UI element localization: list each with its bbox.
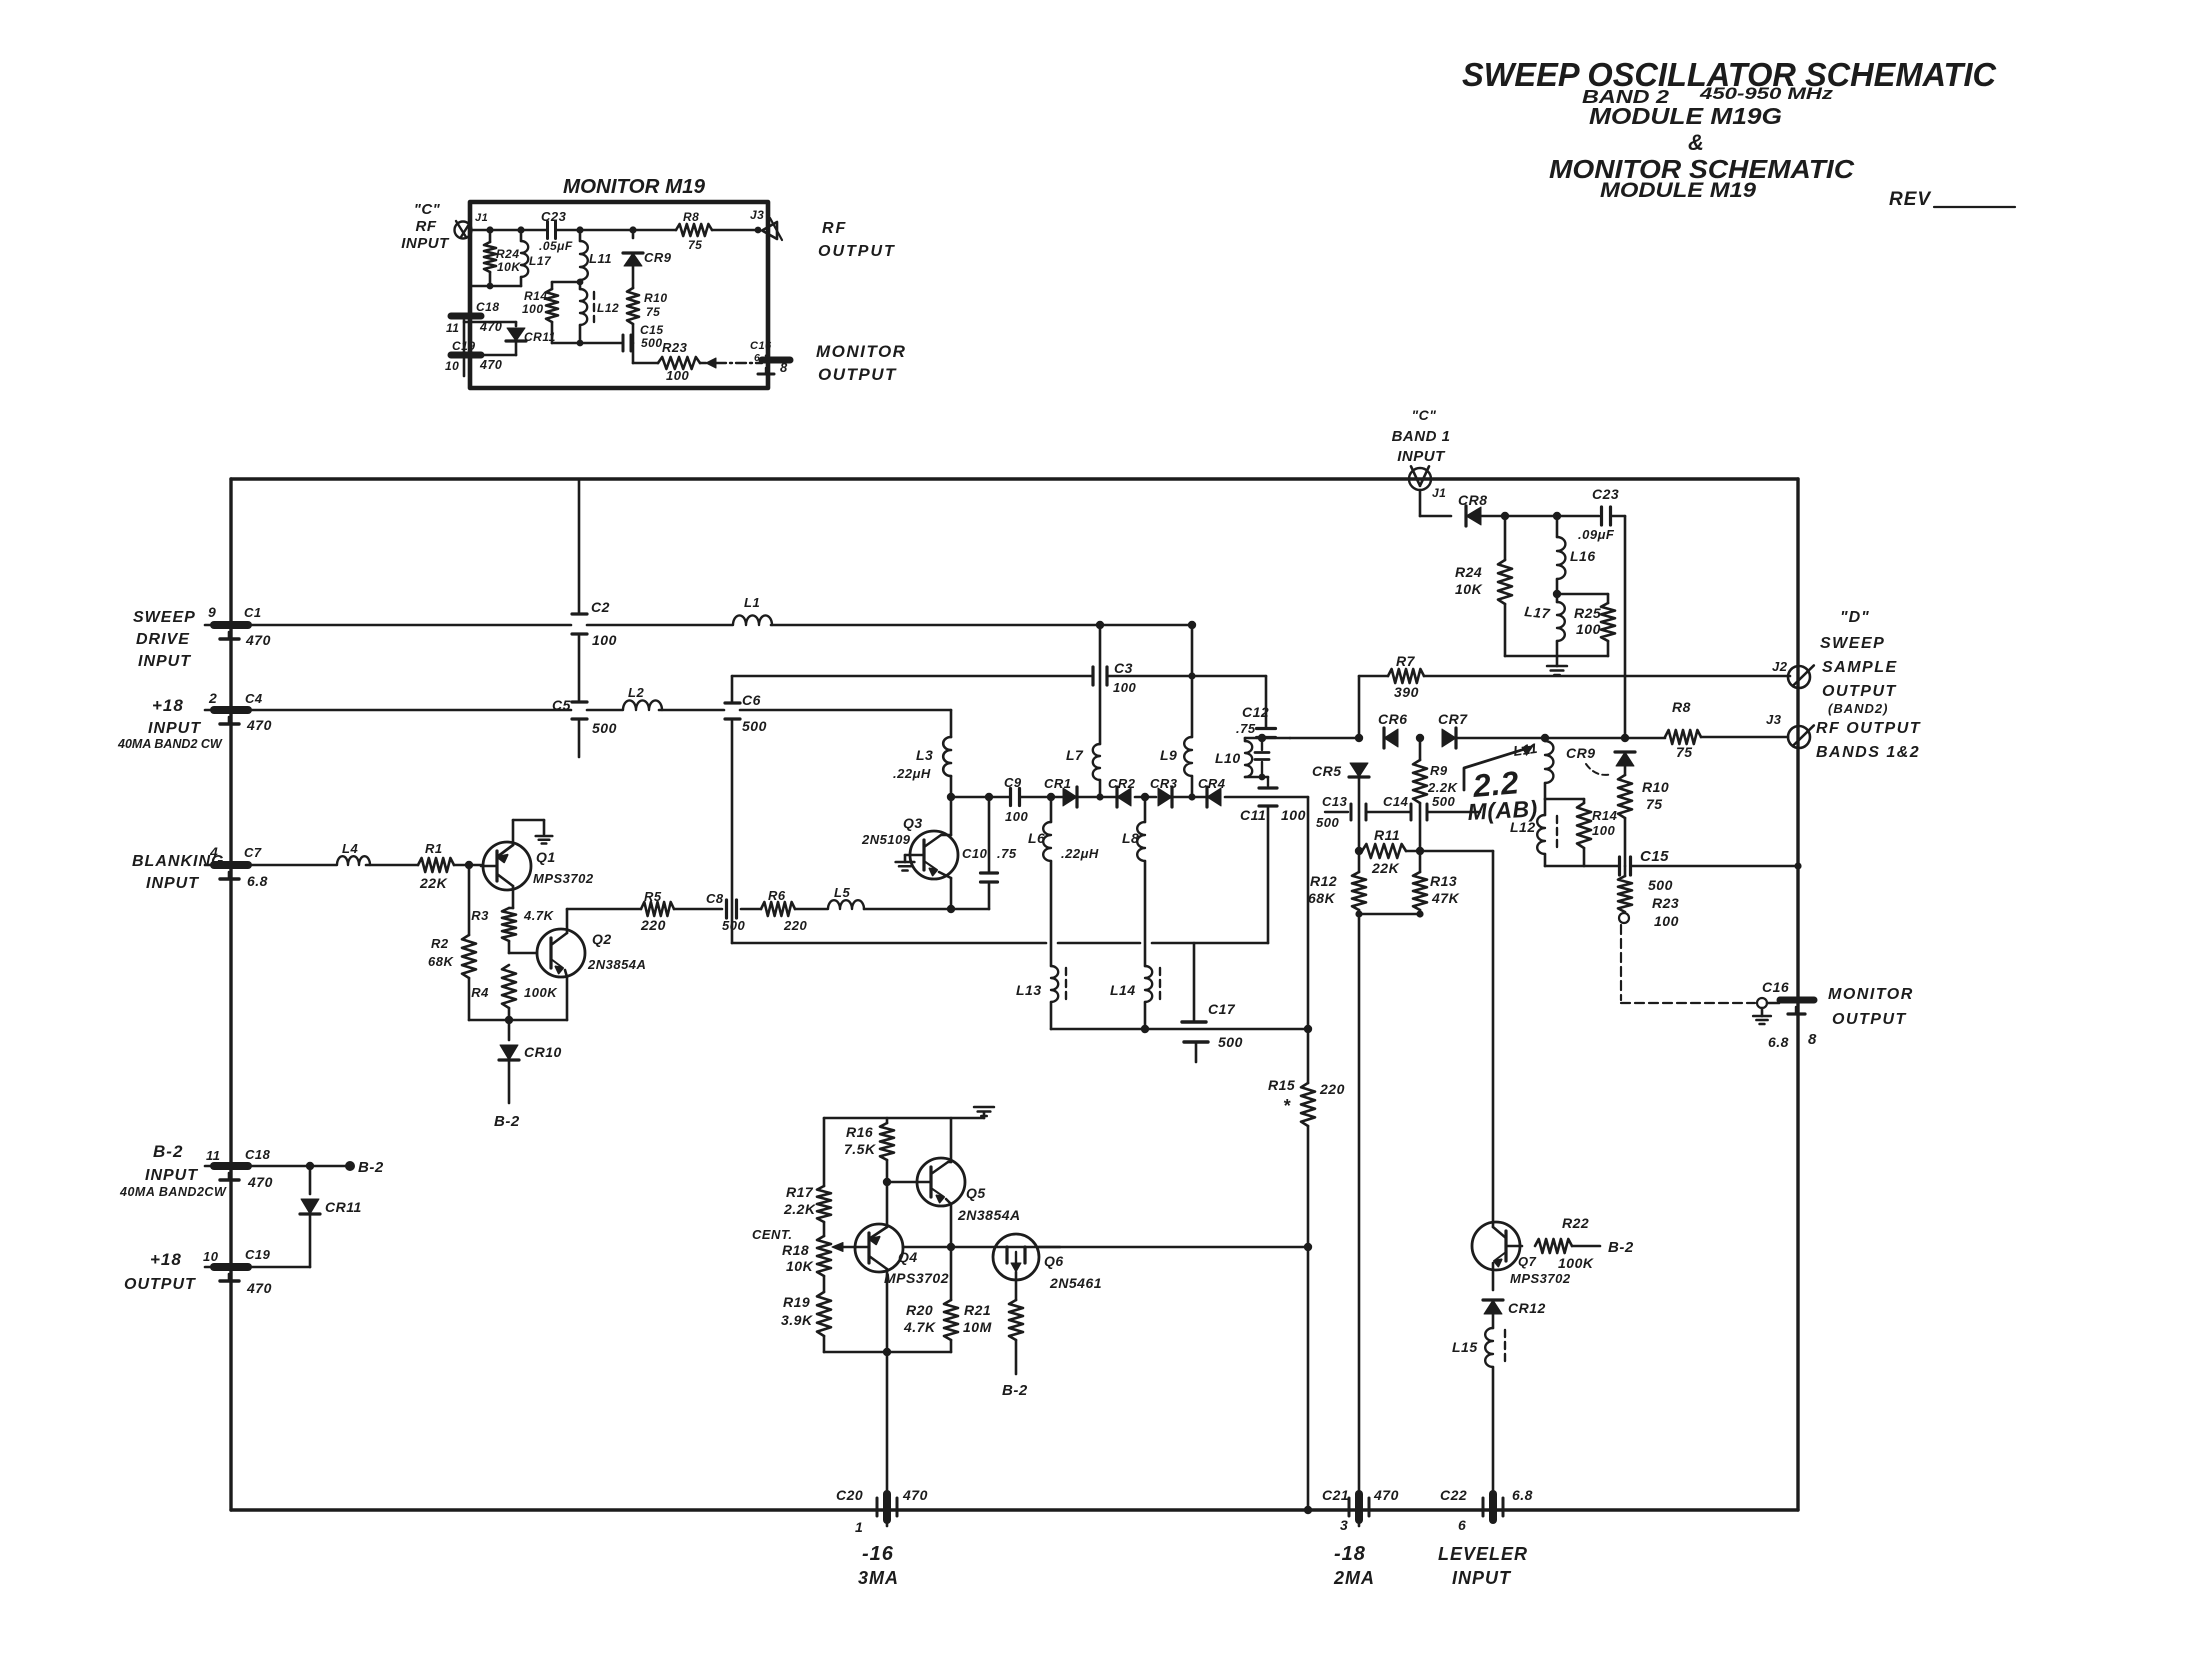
resistor R11 [1359,844,1420,858]
wire top rail Q4 block [824,1117,984,1120]
resistor R19 [817,1292,831,1352]
label R24 10K (monitor) [496,247,521,274]
svg-text:2.2K: 2.2K [783,1201,816,1217]
svg-text:R16: R16 [846,1124,873,1140]
junction dot R11 right [1416,847,1424,855]
resistor R24 (monitor) [484,230,496,286]
label pin 10 [203,1249,219,1264]
label L17 main [1524,603,1552,622]
wire -18 column [1358,914,1361,1526]
inductor L12 main [1537,799,1545,866]
svg-text:J3: J3 [1766,712,1782,727]
junction dot L10 C12 node [1258,734,1266,742]
label C BAND1 INPUT [1392,407,1451,465]
svg-text:C15: C15 [640,323,664,337]
wire 737 bracket top [1245,737,1290,740]
svg-text:R5: R5 [644,889,662,904]
wire blanking line [248,864,481,867]
junction dot R11 left [1355,847,1363,855]
svg-text:8: 8 [780,360,788,375]
junction dot L12 bottom (monitor) [577,340,584,347]
svg-text:INPUT: INPUT [1397,448,1446,465]
label 470 (C20) [902,1487,928,1503]
svg-text:C9: C9 [1004,775,1022,790]
label 2N3854A (Q5) [957,1207,1021,1223]
svg-text:100K: 100K [1558,1255,1594,1271]
label R14 100 main [1592,808,1618,838]
label 500 (C15 main) [1648,877,1673,893]
svg-text:RF OUTPUT: RF OUTPUT [1816,720,1921,737]
resistor R8 (monitor) [676,224,712,236]
svg-text:L17: L17 [1524,603,1552,622]
wire CR7 to CR9 junction [1456,737,1625,740]
svg-text:R11: R11 [1374,827,1400,843]
resistor R4 [502,965,516,1020]
resistor R14 (monitor) [546,282,558,343]
svg-text:-16: -16 [862,1543,894,1565]
svg-text:L12: L12 [597,301,619,315]
junction dot CR5 top [1355,734,1363,742]
inductor L17 main [1557,594,1565,656]
label 100K (R4) [524,985,558,1000]
svg-text:R7: R7 [1396,653,1416,669]
svg-text:OUTPUT: OUTPUT [1822,683,1897,700]
capacitor C13 [1325,804,1351,820]
capacitor L10 shunt cap [1255,738,1269,777]
svg-text:R17: R17 [786,1184,814,1200]
label R14 100 (monitor) [522,289,548,316]
label R23 100 main [1652,895,1679,929]
capacitor C3 plates [1093,667,1107,685]
svg-text:C18: C18 [476,300,500,314]
main box right border [1796,479,1799,1510]
svg-text:R15: R15 [1268,1077,1295,1093]
label 6.8 (C22) [1512,1487,1533,1503]
svg-text:2N5461: 2N5461 [1049,1275,1102,1291]
wire 943 ground line [732,942,1268,945]
junction dot L6 top [1047,793,1055,801]
resistor R2 [462,865,476,1020]
svg-text:6.8: 6.8 [247,873,268,889]
svg-text:220: 220 [783,918,807,933]
svg-text:100: 100 [592,632,617,648]
inductor L6 [1043,797,1051,966]
svg-text:470: 470 [246,717,272,733]
wire CR11 to C19 (monitor) [464,354,516,357]
resistor R22 [1535,1239,1600,1253]
label CR11 main [325,1199,362,1215]
svg-text:7.5K: 7.5K [844,1141,876,1157]
svg-text:J2: J2 [1772,659,1788,674]
label 500 (C13) [1316,815,1339,830]
label C21 [1322,1487,1349,1503]
svg-text:L8: L8 [1122,830,1139,846]
label BLANKING INPUT [132,853,224,892]
resistor R14 main [1577,799,1591,866]
label Q2 [592,931,612,947]
wire L3 corner [950,710,953,737]
label R20 4.7K [903,1302,936,1335]
label Q1 [536,849,556,865]
svg-text:LEVELER: LEVELER [1438,1544,1528,1564]
svg-text:10K: 10K [786,1258,814,1274]
junction dot L16 top [1553,512,1561,520]
diode CR4 [1207,787,1221,807]
label C14 [1383,794,1409,809]
connector J1 main [1409,466,1431,490]
label L2 [628,685,644,700]
diode CR9 (monitor) [623,230,643,288]
label D SWEEP SAMPLE OUTPUT BAND2 [1820,609,1898,716]
capacitor C8 [727,900,737,918]
wire C6 column down to 943 line [731,721,734,943]
wire C12 feed corner [1265,676,1268,727]
junction dot CR9 top (monitor) [629,226,636,233]
junction dot 1029 right [1304,1025,1312,1033]
wire Q5 emitter to Q6 line [903,1246,1060,1249]
junction dot L11 top [1541,734,1549,742]
wire monitor mid bottom line [552,342,622,345]
label R25 100 [1574,605,1601,637]
wire CR9 column to R23 (monitor) [632,343,635,363]
junction dot R9 top [1416,734,1424,742]
capacitor C6 feedthrough plates [725,676,740,719]
label -16 3MA [858,1543,899,1588]
resistor R3 [502,908,516,941]
label asterisk (R15) [1283,1096,1291,1116]
label CR6 [1378,711,1408,727]
main box top border [231,477,1798,480]
label 4.7K (R3) [523,908,555,923]
label C10 [962,846,988,861]
label R3 [471,908,489,923]
label C11 [1240,807,1266,823]
junction dot L14 bottom [1141,1025,1149,1033]
label R9 [1430,763,1448,778]
label 470 (C4) [246,717,272,733]
svg-text:CR8: CR8 [1458,492,1488,508]
resistor R17 [817,1118,831,1222]
label R10 75 (monitor) [644,291,668,319]
label J3 main [1766,712,1782,727]
label R16 7.5K [844,1124,876,1157]
svg-text:R4: R4 [471,985,489,1000]
svg-text:R20: R20 [906,1302,933,1318]
svg-text:500: 500 [1432,794,1455,809]
label SWEEP DRIVE INPUT [133,609,196,670]
svg-text:+18: +18 [152,696,184,715]
resistor R9 [1413,738,1427,851]
transistor Q6 2N5461 FET [993,1234,1039,1280]
inductor L15 [1485,1328,1493,1494]
junction dot L11 top (monitor) [576,226,583,233]
resistor R7 [1359,669,1790,683]
svg-text:C20: C20 [836,1487,863,1503]
label 470 (C18 main) [247,1174,273,1190]
svg-text:C11: C11 [1240,807,1266,823]
junction dot R24 top main [1501,512,1509,520]
svg-text:+18: +18 [150,1250,182,1269]
junction dot CR11 top main [306,1162,314,1170]
label R4 [471,985,489,1000]
svg-text:C18: C18 [245,1147,271,1162]
svg-text:2N3854A: 2N3854A [587,957,646,972]
svg-text:"C": "C" [414,201,441,218]
transistor Q2 2N3854A [537,909,585,1020]
capacitor C9 [1011,789,1020,806]
resistor R23 (monitor) [633,357,706,369]
svg-text:470: 470 [247,1174,273,1190]
monitor sub-schematic title MONITOR M19 [563,176,706,198]
svg-text:C8: C8 [706,891,724,906]
junction dot L9 bottom [1188,793,1195,800]
junction dot C15 border [1794,862,1801,869]
resistor R10 main [1618,775,1632,866]
label R10 75 main [1642,779,1669,812]
wire C18 to CR11 (monitor) [464,322,516,326]
wire sweep drive line [248,624,1192,627]
junction dot L7 top [1096,621,1104,629]
label 470 (C1) [245,632,271,648]
svg-text:SWEEP: SWEEP [133,609,196,626]
svg-text:2.2K: 2.2K [1427,780,1459,795]
title text ampersand [1688,130,1704,155]
terminal circle R23 bottom [1619,913,1629,923]
wire R15 column to bottom border [1307,1247,1310,1510]
svg-text:R25: R25 [1574,605,1601,621]
svg-text:MPS3702: MPS3702 [533,871,594,886]
core dashes L12 (monitor) [593,292,595,322]
capacitor C14b 500 [1427,804,1480,820]
svg-text:MONITOR M19: MONITOR M19 [563,176,706,198]
core dashes L13 [1065,968,1067,1000]
connector J1 (monitor) [455,221,472,239]
svg-text:CR4: CR4 [1198,776,1226,791]
label .75 (C10) [997,846,1017,861]
capacitor C10 [981,797,998,909]
label Q3 [903,815,923,831]
svg-text:MODULE M19G: MODULE M19G [1589,103,1782,129]
resistor R20 [944,1247,958,1352]
label C18 main [245,1147,271,1162]
diode CR6 [1384,728,1398,748]
svg-text:B-2: B-2 [494,1113,520,1130]
annotation arrow to L11 [1464,746,1533,790]
svg-text:47K: 47K [1431,890,1460,906]
svg-text:C19: C19 [245,1247,271,1262]
svg-text:100: 100 [522,302,544,316]
svg-text:1: 1 [855,1519,863,1535]
label -18 2MA [1333,1543,1375,1588]
label R17 2.2K [783,1184,816,1217]
svg-text:RF: RF [416,218,437,235]
label L8 [1122,830,1139,846]
transistor Q7 MPS3702 (mirrored) [1472,1222,1522,1290]
label 40MA BAND2CW [119,1185,227,1199]
svg-text:500: 500 [742,718,767,734]
label 470 (C19 main) [246,1280,272,1296]
svg-text:CR12: CR12 [1508,1300,1546,1316]
junction dot L11 bottom (monitor) [577,279,584,286]
wire 737 line to CR5 junction [1290,737,1359,740]
label C7 [244,845,262,860]
wire R11 to Q7 corner [1420,850,1493,853]
svg-text:C23: C23 [1592,486,1619,502]
transistor Q4 MPS3702 [855,1180,903,1352]
dashed shield wire down [1620,925,1622,1000]
capacitor C12 series plates [1257,729,1276,738]
svg-text:L3: L3 [916,747,933,763]
svg-text:11: 11 [206,1148,221,1163]
label Q5 [966,1185,986,1201]
inductor L9 column [1184,625,1192,797]
svg-text:DRIVE: DRIVE [136,631,190,648]
label 100 (C9) [1005,809,1028,824]
diode CR10 [499,1045,519,1103]
diode CR11 (monitor) [506,328,526,355]
resistor R5 [641,902,674,916]
svg-text:INPUT: INPUT [146,875,199,892]
inductor L12 (monitor) [580,282,587,343]
label pin 8 (C16 main) [1808,1031,1817,1048]
svg-text:R14: R14 [524,289,548,303]
svg-text:.22μH: .22μH [1061,846,1099,861]
wire oscillator 797 line [951,796,1308,799]
capacitor C23 (monitor) [548,222,556,239]
svg-text:L12: L12 [1510,819,1536,835]
core dashes L12 main [1556,816,1558,852]
label C13 [1322,794,1348,809]
label C1 [244,605,262,620]
label R5 [644,889,662,904]
svg-text:C10: C10 [962,846,988,861]
label pin 9 [208,604,216,620]
label pin 1 (C20) [855,1519,863,1535]
resistor R16 [880,1118,894,1180]
label R11 [1374,827,1400,843]
wire C3 line [732,675,1266,678]
svg-text:CR11: CR11 [524,330,556,344]
connector J2 [1788,665,1814,688]
capacitor C14 [1366,804,1411,820]
inductor L8 [1137,797,1145,966]
svg-text:R12: R12 [1310,873,1337,889]
junction dot R8 right (monitor) [755,227,762,234]
ground symbol L17 [1547,656,1567,675]
svg-text:L1: L1 [744,595,760,610]
label Q7 [1518,1254,1537,1269]
svg-text:75: 75 [1676,744,1693,760]
label C9 [1004,775,1022,790]
capacitor C5 plates [572,702,587,757]
svg-text:*: * [1283,1096,1291,1116]
svg-text:BAND 1: BAND 1 [1392,428,1451,445]
svg-text:3.9K: 3.9K [781,1312,813,1328]
wire rail to CR10 [508,1020,511,1040]
wire L11 to R14 top [1545,798,1584,801]
label MONITOR OUTPUT (monitor) [816,342,906,384]
label pin 4 [209,844,218,860]
svg-text:R2: R2 [431,936,449,951]
label pin 11 and 470 (C18 monitor) [446,320,502,335]
svg-text:500: 500 [641,336,663,350]
label CR9 (monitor) [644,250,672,265]
label CR1 [1044,776,1072,791]
svg-text:"D": "D" [1840,609,1870,626]
diode CR9 main [1615,752,1635,775]
label B-2 (R22) [1608,1239,1634,1256]
arrowhead on monitor output line [706,358,716,368]
ground symbol Q1 emitter [536,836,553,844]
inductor L13 [1051,966,1058,1029]
label R1 [425,841,443,856]
label 40MA BAND2 CW [117,737,223,751]
svg-text:R22: R22 [1562,1215,1589,1231]
junction dot R24 top (monitor) [486,226,493,233]
junction dot R24 bottom (monitor) [487,283,494,290]
diode CR1 [1063,787,1077,807]
label C22 [1440,1487,1467,1503]
wire blanking stub [205,864,214,867]
label CR5 [1312,763,1342,779]
svg-text:C19: C19 [452,339,476,353]
svg-text:L7: L7 [1066,747,1084,763]
transistor Q3 2N5109 [905,797,958,909]
capacitor C16 feedthrough main [1767,1000,1814,1014]
svg-text:100: 100 [666,368,689,383]
wire R24/L17 bottom return (monitor) [472,285,521,288]
label 2N3854A (Q2) [587,957,646,972]
label MONITOR OUTPUT main [1828,986,1914,1028]
svg-text:40MA BAND2 CW: 40MA BAND2 CW [117,737,223,751]
svg-text:C4: C4 [245,691,263,706]
potentiometer R18 [817,1222,831,1292]
junction dot L16 bottom [1553,590,1561,598]
svg-text:(BAND2): (BAND2) [1828,701,1888,716]
svg-text:C3: C3 [1114,660,1133,676]
label L14 [1110,982,1136,998]
label L11 (monitor) [589,251,612,266]
svg-text:R23: R23 [1652,895,1679,911]
svg-text:75: 75 [646,305,660,319]
svg-text:3MA: 3MA [858,1568,899,1588]
label 220 (R6) [783,918,807,933]
wire C23 to corner [1611,515,1625,518]
svg-text:B-2: B-2 [153,1142,183,1161]
capacitor C15 (monitor) [623,335,631,351]
svg-text:R19: R19 [783,1294,810,1310]
svg-text:R8: R8 [683,210,699,224]
svg-text:10K: 10K [497,260,521,274]
label R21 10M [963,1302,992,1335]
svg-text:OUTPUT: OUTPUT [1832,1011,1907,1028]
svg-text:INPUT: INPUT [401,235,450,252]
label J1 main [1432,486,1446,500]
label C15 main [1640,848,1669,865]
diode CR3 [1158,787,1172,807]
svg-text:MPS3702: MPS3702 [1510,1271,1571,1286]
label C23 main [1592,486,1619,502]
svg-text:CR7: CR7 [1438,711,1468,727]
svg-text:&: & [1688,130,1704,155]
label Q4 [898,1249,918,1265]
diode CR12 [1483,1300,1503,1328]
resistor R6 [761,902,795,916]
label B-2 (CR10) [494,1113,520,1130]
inductor L4 [337,856,370,865]
svg-text:R23: R23 [662,340,688,355]
capacitor C7 feedthrough [214,865,248,879]
